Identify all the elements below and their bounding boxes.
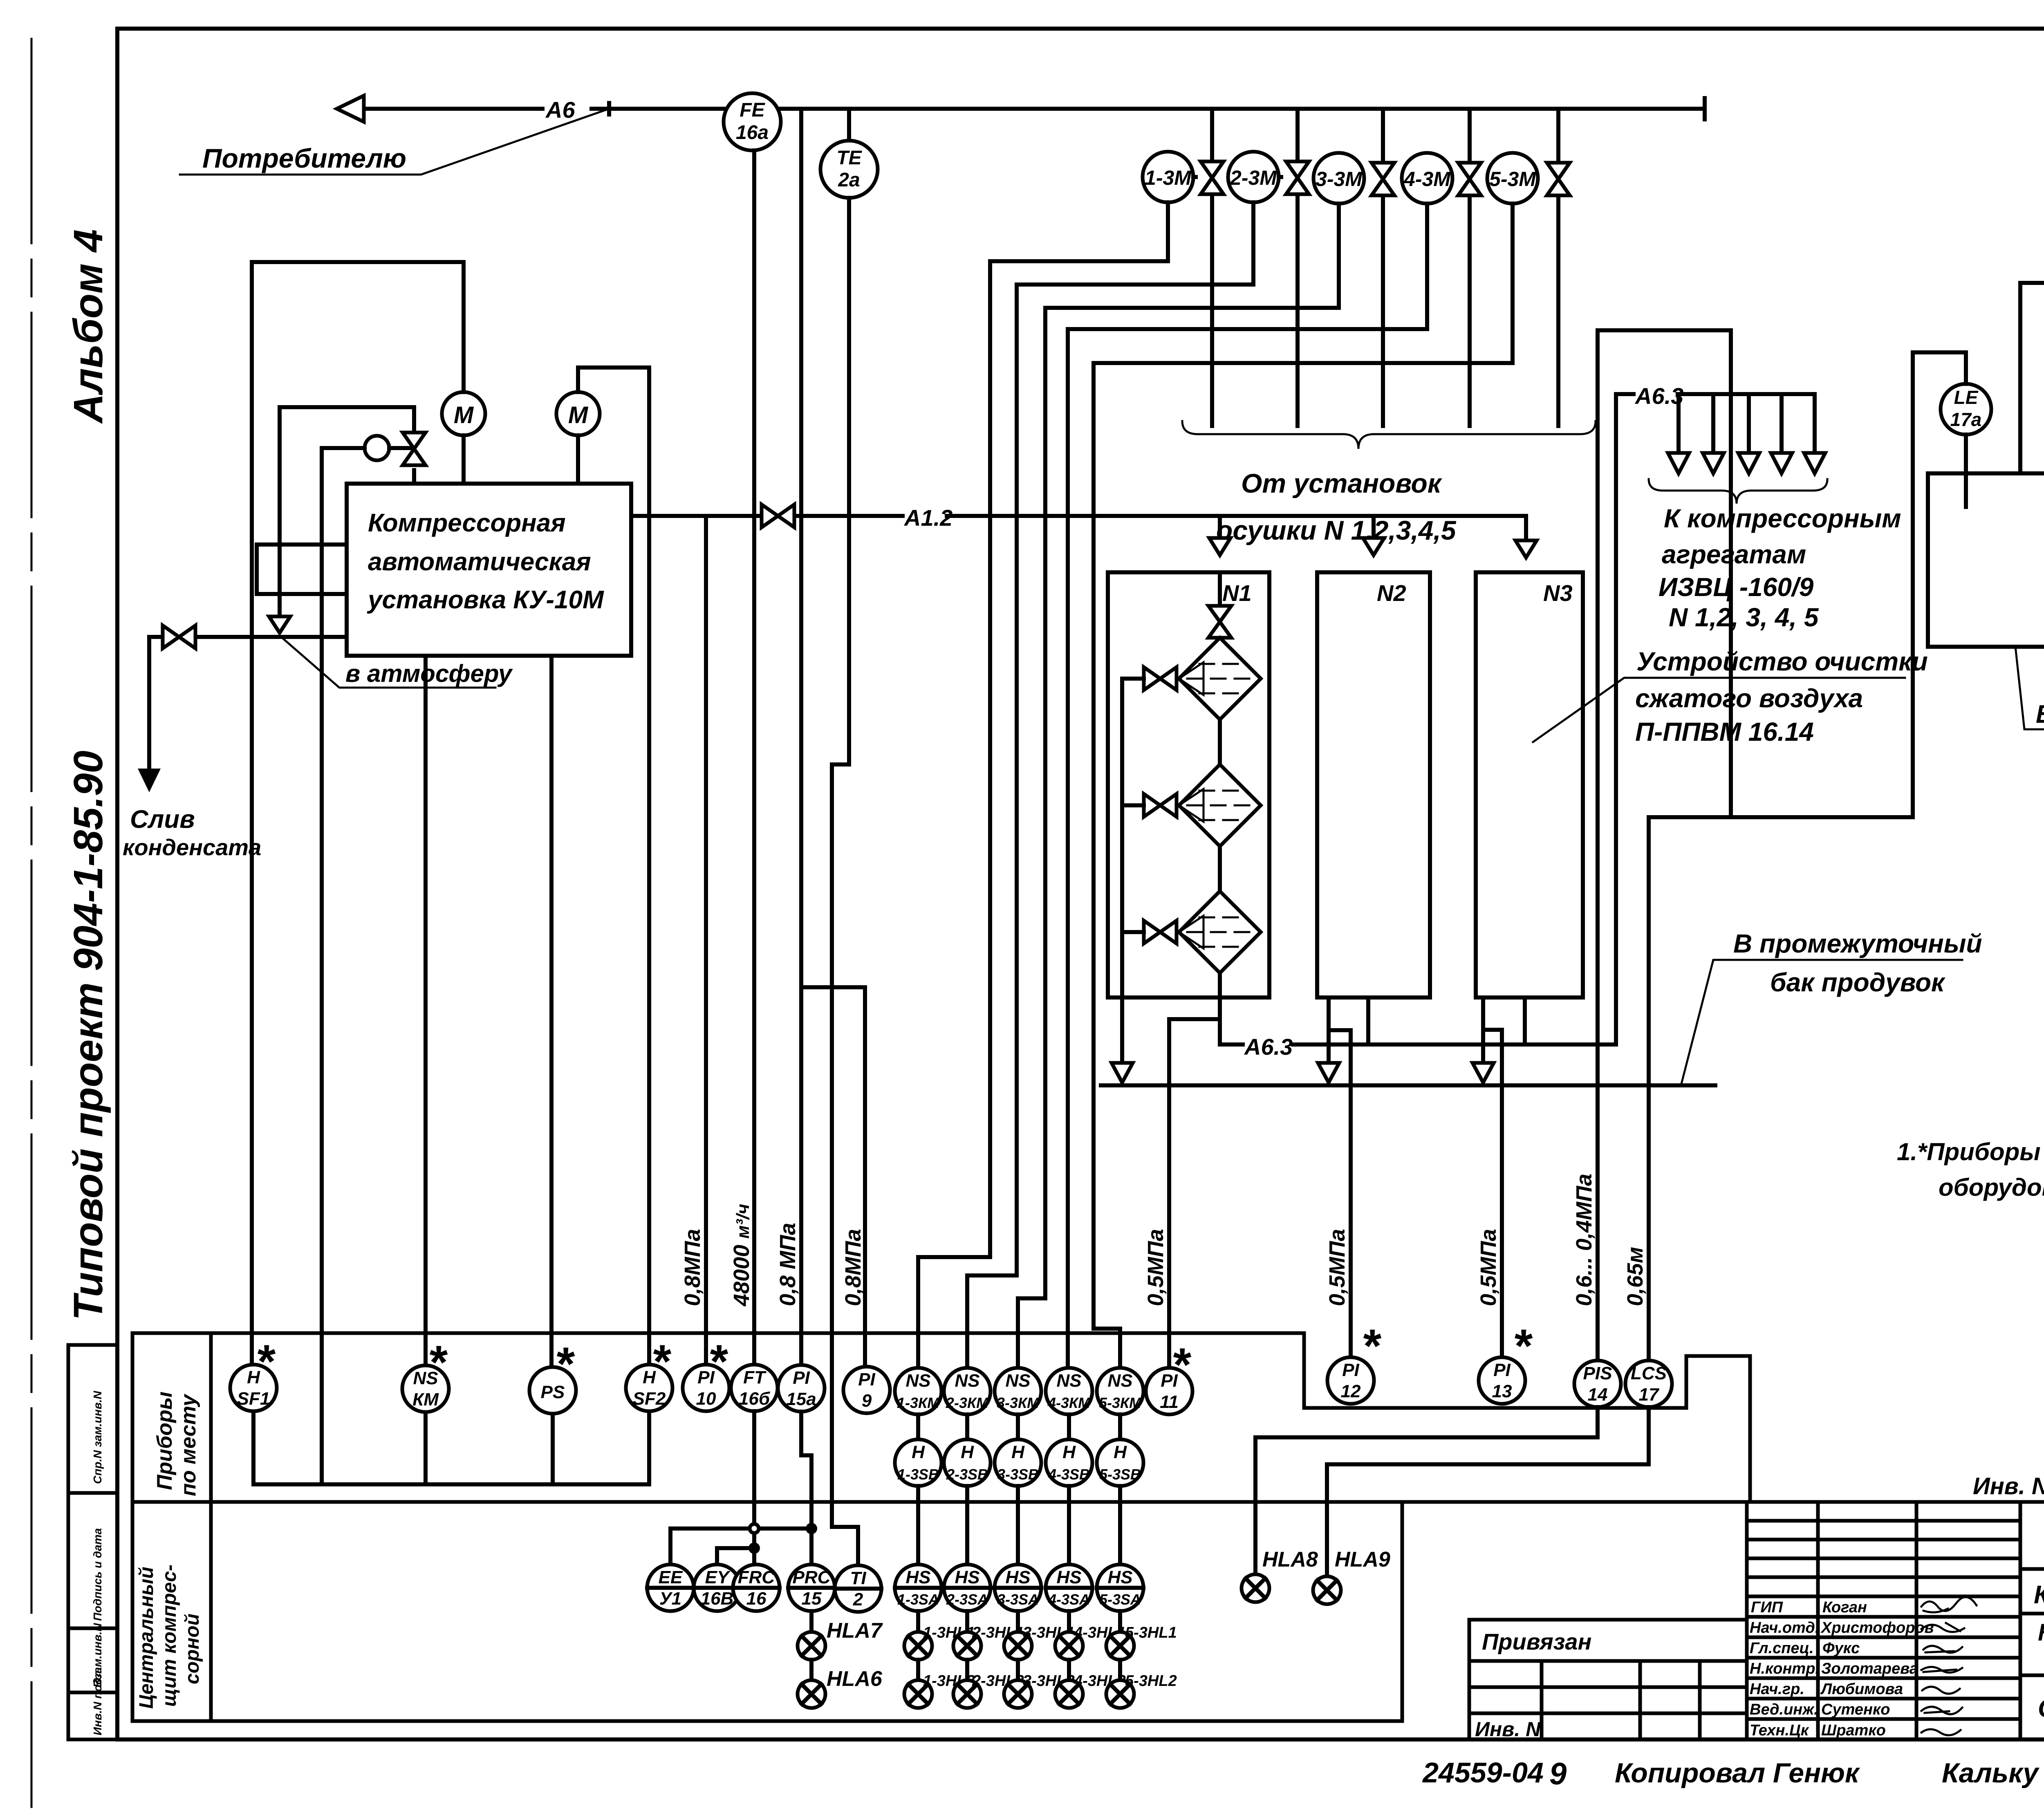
atmosphere arrow (open)	[269, 616, 290, 633]
wire lamp to lamp 2-3HL2	[965, 1660, 969, 1680]
svg-text:А1.2: А1.2	[903, 505, 953, 531]
instrument EY 16v	[694, 1564, 740, 1611]
instrument HS 3-3SA	[995, 1564, 1041, 1611]
svg-text:*: *	[1171, 1339, 1192, 1391]
svg-text:осушки N 1,2,3,4,5: осушки N 1,2,3,4,5	[1216, 515, 1457, 545]
lamp 3-3HL1	[1004, 1624, 1075, 1660]
box KU-10M unit	[347, 484, 631, 656]
svg-text:0,8МПа: 0,8МПа	[680, 1229, 705, 1306]
svg-text:HS: HS	[1056, 1567, 1081, 1587]
svg-text:TI: TI	[850, 1568, 866, 1588]
svg-text:Н: Н	[912, 1442, 925, 1462]
svg-text:М: М	[568, 402, 589, 428]
svg-text:PI: PI	[793, 1368, 810, 1388]
wire RO corner into tank	[2018, 283, 2022, 473]
instrument TI 2	[835, 1565, 881, 1612]
wire N3 blowdown	[1481, 997, 1485, 1063]
svg-text:10: 10	[696, 1389, 716, 1409]
leader oil tank label	[2015, 647, 2044, 729]
svg-text:Типовой проект 904-1-85.90: Типовой проект 904-1-85.90	[65, 751, 111, 1320]
wire 2-3M drop to NS 2-3KM	[967, 202, 1253, 1365]
wire HLA7 to HLA6	[809, 1660, 814, 1680]
frame top	[117, 27, 2044, 31]
motor M2	[556, 392, 600, 435]
svg-text:*: *	[1513, 1320, 1533, 1372]
lamp HLA9	[1313, 1548, 1390, 1604]
instrument NS 5-3KM	[1097, 1368, 1143, 1414]
svg-text:3-3SB: 3-3SB	[997, 1466, 1039, 1483]
svg-text:LE: LE	[1954, 387, 1979, 408]
instrument HS 1-3SA	[895, 1564, 941, 1611]
svg-text:17: 17	[1639, 1385, 1660, 1405]
svg-text:5-3КМ: 5-3КМ	[1099, 1394, 1142, 1411]
wire KU drop to NS KM	[424, 656, 428, 1365]
wire LCS to HLA9	[1327, 1407, 1649, 1577]
svg-text:Шратко: Шратко	[1821, 1722, 1886, 1739]
wire NS to H 4-3SB	[1067, 1414, 1071, 1439]
svg-text:*: *	[651, 1336, 672, 1388]
wire EY branch	[717, 1548, 754, 1564]
instrument H 1-3SB	[895, 1439, 941, 1486]
arrow A6.3 drop3 (open)	[1738, 453, 1759, 473]
wire NS to H 1-3SB	[916, 1414, 920, 1439]
drain valve	[163, 625, 195, 648]
svg-text:Фукс: Фукс	[1822, 1640, 1860, 1657]
label Potrebitelyu leader	[180, 109, 609, 175]
instrument NS 2-3KM	[944, 1368, 991, 1414]
svg-text:17а: 17а	[1950, 409, 1982, 430]
svg-text:Приборы: Приборы	[153, 1392, 177, 1490]
valve 1-3M riser	[1210, 109, 1214, 426]
instrument H 4-3SB	[1046, 1439, 1092, 1486]
instrument LCS 17	[1625, 1360, 1672, 1407]
svg-text:16а: 16а	[736, 122, 769, 143]
wire A6 main bus	[362, 107, 1705, 111]
table row2 bottom	[132, 1502, 1402, 1721]
instrument HS 2-3SA	[944, 1564, 991, 1611]
privyazan box	[1469, 1620, 1747, 1739]
svg-text:по месту: по месту	[177, 1393, 200, 1496]
svg-text:HLA9: HLA9	[1335, 1548, 1390, 1571]
svg-text:HS: HS	[1005, 1567, 1030, 1587]
instrument PRC 15	[788, 1564, 835, 1611]
svg-text:16: 16	[746, 1589, 766, 1609]
svg-text:FRC: FRC	[738, 1567, 775, 1587]
instrument PI 12	[1327, 1320, 1382, 1404]
svg-text:автоматическая: автоматическая	[368, 548, 591, 576]
leader ustroistvo ochistki	[1533, 678, 1905, 742]
svg-text:Альбом 4: Альбом 4	[65, 229, 111, 424]
svg-text:16б: 16б	[739, 1389, 771, 1409]
svg-text:PIS: PIS	[1583, 1363, 1612, 1383]
label pribory po mestu	[153, 1392, 200, 1496]
brace to compressor units	[1649, 479, 1827, 504]
wire gauge line	[322, 446, 414, 450]
valve 3-3M riser	[1381, 109, 1385, 426]
instrument H 5-3SB	[1097, 1439, 1143, 1486]
lamp HLA6	[798, 1667, 883, 1708]
wire 4-3M drop to NS 4-3KM	[1068, 204, 1427, 1365]
svg-text:КМ: КМ	[412, 1390, 439, 1410]
svg-text:Устройство очистки: Устройство очистки	[1636, 647, 1928, 676]
svg-text:N1: N1	[1222, 580, 1252, 606]
leader to intermediate tank	[1681, 960, 1962, 1085]
wire HS to lamp 2-3HL1	[965, 1611, 969, 1632]
svg-text:Н: Н	[1011, 1442, 1025, 1462]
svg-text:*: *	[428, 1336, 448, 1389]
wire PIS to HLA8	[1255, 1407, 1598, 1575]
titleblock row line 2	[2020, 1612, 2044, 1616]
svg-text:3-3М: 3-3М	[1316, 168, 1363, 191]
wire TE2a stub	[847, 109, 851, 141]
svg-text:9: 9	[862, 1391, 872, 1411]
svg-text:PI: PI	[858, 1369, 875, 1390]
valve 1-3M	[1201, 161, 1224, 194]
valve 4-3M riser	[1468, 109, 1472, 426]
instrument FRC 16	[733, 1564, 780, 1611]
valve 2-3M	[1286, 161, 1309, 194]
instrument H 3-3SB	[995, 1439, 1041, 1486]
svg-text:15а: 15а	[786, 1389, 816, 1409]
instrument HS 4-3SA	[1046, 1564, 1092, 1611]
wire lamp to lamp 3-3HL2	[1016, 1660, 1020, 1680]
lamp HLA8	[1242, 1548, 1318, 1602]
filter diamond 1	[1179, 638, 1261, 719]
wire PI9 branch from PI15a line	[801, 987, 865, 1367]
svg-text:5-3HL2: 5-3HL2	[1125, 1672, 1177, 1690]
svg-text:У1: У1	[659, 1589, 681, 1609]
instrument PI 11	[1146, 1339, 1192, 1414]
arrow to consumer (open, left)	[337, 96, 364, 122]
svg-text:EE: EE	[659, 1567, 683, 1587]
svg-text:2а: 2а	[838, 169, 860, 191]
svg-text:4-3КМ: 4-3КМ	[1047, 1394, 1091, 1411]
svg-text:PI: PI	[1493, 1360, 1511, 1380]
filter diamond 2	[1179, 764, 1261, 846]
svg-text:5-3SB: 5-3SB	[1099, 1466, 1141, 1483]
svg-text:Гл.спец.: Гл.спец.	[1750, 1640, 1814, 1657]
wire filters left header	[1122, 679, 1144, 932]
brace from dryer units	[1182, 421, 1596, 449]
instrument HS 5-3SA	[1097, 1564, 1143, 1611]
arrow A6.3 drop2 (open)	[1703, 453, 1724, 473]
pipe to drain valve	[149, 637, 347, 769]
instrument 2-3M	[1228, 152, 1281, 202]
svg-text:NS: NS	[1056, 1371, 1081, 1391]
svg-text:конденсата: конденсата	[123, 834, 261, 860]
instrument FT 16b	[731, 1365, 778, 1411]
wire A6.3 top bus	[1618, 392, 1815, 396]
arrow into N3 (open)	[1515, 540, 1537, 558]
wire M1 to box	[462, 435, 466, 484]
wire HS to lamp 1-3HL1	[916, 1611, 920, 1632]
svg-text:*: *	[1361, 1320, 1382, 1372]
wire LE to LCS route	[1649, 352, 1966, 1360]
svg-text:HS: HS	[1107, 1567, 1132, 1587]
valve in N1 inlet	[1218, 572, 1222, 639]
svg-text:ИЗВЦ -160/9: ИЗВЦ -160/9	[1659, 572, 1814, 602]
table left edges	[132, 1333, 211, 1721]
wire LE into tank	[1964, 435, 1968, 507]
svg-text:Инв.N подл.: Инв.N подл.	[91, 1668, 104, 1735]
svg-text:Н: Н	[961, 1442, 974, 1462]
local panel bus	[253, 1411, 649, 1484]
svg-text:агрегатам: агрегатам	[1662, 540, 1806, 569]
svg-text:NS: NS	[905, 1371, 930, 1391]
svg-text:HLA7: HLA7	[827, 1619, 883, 1643]
instrument PS	[529, 1338, 576, 1414]
titleblock row line 1	[2020, 1567, 2044, 1571]
valve 5-3M riser	[1556, 109, 1560, 426]
svg-text:9: 9	[1549, 1757, 1567, 1791]
svg-text:Спр.N зам.инв.N: Спр.N зам.инв.N	[91, 1391, 104, 1484]
A6 bus junction tick	[607, 103, 611, 114]
wire FT16b to FRC16	[752, 1411, 756, 1564]
svg-text:0,65м: 0,65м	[1623, 1247, 1647, 1306]
wire NS to H 3-3SB	[1016, 1414, 1020, 1439]
wire A6.3 arrow drop 2	[1711, 394, 1715, 453]
svg-text:Н.контр.: Н.контр.	[1750, 1660, 1820, 1677]
instrument NS 4-3KM	[1046, 1368, 1092, 1414]
svg-text:Центральный: Центральный	[136, 1567, 157, 1709]
svg-text:Инв. N: Инв. N	[1973, 1473, 2044, 1499]
svg-text:Копировал Генюк: Копировал Генюк	[1615, 1757, 1860, 1789]
instrument 4-3M	[1402, 153, 1452, 204]
svg-text:2-3М: 2-3М	[1230, 166, 1277, 189]
titleblock outline left part	[1747, 1502, 2020, 1739]
lamp 5-3HL2	[1106, 1672, 1177, 1708]
svg-text:PRC: PRC	[793, 1567, 831, 1587]
instrument PI 15a	[778, 1365, 825, 1412]
svg-text:Потребителю: Потребителю	[202, 143, 406, 173]
arrow into N1 (open)	[1218, 516, 1222, 538]
svg-text:Техн.Цк: Техн.Цк	[1750, 1722, 1809, 1739]
svg-text:SF2: SF2	[633, 1389, 666, 1409]
svg-text:3-3КМ: 3-3КМ	[997, 1394, 1040, 1411]
svg-text:сорной: сорной	[182, 1614, 203, 1684]
svg-text:5-3HL1: 5-3HL1	[1125, 1624, 1177, 1641]
svg-text:Компрессорная: Компрессорная	[368, 509, 566, 537]
svg-text:14: 14	[1588, 1385, 1608, 1405]
label v atmosferu leader	[282, 638, 495, 688]
svg-text:Любимова: Любимова	[1820, 1681, 1903, 1698]
svg-text:Н: Н	[1114, 1442, 1127, 1462]
wire KU drop to PS	[549, 656, 554, 1367]
instrument 1-3M	[1143, 152, 1196, 202]
junction dot FRC line	[749, 1542, 760, 1554]
svg-text:К компрессорным: К компрессорным	[1664, 504, 1901, 533]
svg-text:бак продувок: бак продувок	[1770, 968, 1946, 997]
arrow N3 blowdown (open)	[1472, 1063, 1494, 1083]
binding edge thin line	[31, 39, 33, 1807]
wire A6.3 arrow drop 1	[1676, 394, 1681, 453]
wire HS to lamp 5-3HL1	[1118, 1611, 1122, 1632]
table top boundary	[132, 1333, 1750, 1502]
valve 2-3M riser	[1295, 109, 1300, 426]
instrument PI 9	[843, 1367, 890, 1413]
label tsentralnyi schit	[136, 1564, 203, 1709]
svg-text:PI: PI	[1342, 1360, 1359, 1380]
instrument 5-3M	[1487, 153, 1538, 204]
wire bus down to PI15a	[799, 109, 803, 1365]
svg-text:1-3SB: 1-3SB	[897, 1466, 939, 1483]
wire N3 outlet to A6.3	[1523, 997, 1527, 1044]
wire gauge drop to panel bus	[320, 448, 324, 1484]
svg-text:0,8МПа: 0,8МПа	[841, 1229, 865, 1306]
svg-text:2: 2	[853, 1589, 863, 1609]
svg-text:щит компрес-: щит компрес-	[159, 1564, 180, 1707]
svg-text:Привязан: Привязан	[1482, 1629, 1591, 1654]
lamp 1-3HL2	[904, 1672, 975, 1708]
wire NS to H 5-3SB	[1118, 1414, 1122, 1439]
valve filter2	[1144, 794, 1177, 817]
svg-text:1-3М: 1-3М	[1145, 166, 1192, 189]
svg-text:П-ППВМ 16.14: П-ППВМ 16.14	[1635, 717, 1814, 746]
wire FE16a down to FT16b	[752, 150, 756, 1365]
arrow into N2 (open)	[1372, 516, 1376, 538]
svg-text:HS: HS	[955, 1567, 979, 1587]
svg-text:*: *	[708, 1336, 728, 1388]
svg-text:FT: FT	[743, 1367, 766, 1387]
svg-text:NS: NS	[955, 1371, 979, 1391]
svg-text:3-3SA: 3-3SA	[997, 1591, 1039, 1608]
wire H to HS 1-3SA	[916, 1486, 920, 1564]
instrument H SF2	[626, 1336, 672, 1411]
wire filters chain	[1218, 719, 1222, 891]
svg-text:4-3М: 4-3М	[1403, 168, 1451, 191]
wire PIS14 loop	[1598, 330, 1731, 1360]
instrument PIS 14	[1574, 1360, 1621, 1407]
lamp 3-3HL2	[1004, 1672, 1075, 1708]
sidebar small boxes column	[68, 1345, 117, 1739]
valve 3-3M	[1372, 163, 1394, 195]
bracket on box left	[257, 545, 347, 594]
svg-text:N2: N2	[1377, 580, 1406, 606]
wire 3-3M drop to NS 3-3KM	[1018, 204, 1339, 1365]
svg-text:0,5МПа: 0,5МПа	[1325, 1229, 1349, 1306]
titleblock stacked rows	[1747, 1521, 2020, 1719]
svg-text:12: 12	[1341, 1381, 1361, 1401]
lamp 4-3HL1	[1055, 1624, 1126, 1660]
svg-text:4-3SA: 4-3SA	[1048, 1591, 1090, 1608]
svg-text:2-3КМ: 2-3КМ	[946, 1394, 989, 1411]
wire 1-3M drop to NS 1-3KM	[918, 202, 1168, 1365]
svg-text:LCS: LCS	[1631, 1363, 1667, 1383]
svg-text:Христофоров: Христофоров	[1820, 1619, 1934, 1636]
arrow N2 blowdown (open)	[1318, 1063, 1339, 1083]
svg-text:Сутенко: Сутенко	[1821, 1701, 1890, 1718]
svg-text:Компрессорная стан-: Компрессорная стан-	[2038, 1619, 2044, 1646]
valve filter1	[1144, 667, 1177, 690]
svg-text:Инв. N: Инв. N	[1475, 1718, 1541, 1741]
instrument TE 2a	[820, 141, 878, 198]
wire H to HS 2-3SA	[965, 1486, 969, 1564]
wire H to HS 3-3SA	[1016, 1486, 1020, 1564]
wire PI11 tap	[1169, 1019, 1220, 1368]
arrow A6.3 drop4 (open)	[1771, 453, 1792, 473]
svg-text:*: *	[555, 1338, 575, 1390]
svg-text:1-3SA: 1-3SA	[897, 1591, 939, 1608]
wire A6.3 arrow drop 4	[1780, 394, 1784, 453]
wire vent loop with valve	[280, 407, 414, 621]
lamp 2-3HL2	[953, 1672, 1024, 1708]
svg-text:SF1: SF1	[237, 1389, 270, 1409]
instrument PI 13	[1479, 1320, 1533, 1404]
instrument FE 16a on bus	[724, 93, 781, 150]
wire EE branch	[670, 1529, 811, 1564]
svg-text:0,5МПа: 0,5МПа	[1143, 1229, 1168, 1306]
svg-text:Золотарева: Золотарева	[1821, 1660, 1918, 1677]
svg-text:2-3SB: 2-3SB	[946, 1466, 988, 1483]
valve filter3	[1144, 921, 1177, 944]
svg-text:От установок: От установок	[1241, 468, 1443, 498]
table row divider / title top	[132, 1500, 2044, 1504]
instrument NS 3-3KM	[995, 1368, 1041, 1414]
signature scribbles	[1921, 1597, 1977, 1735]
valve on A1.2	[762, 504, 794, 527]
svg-text:А6: А6	[545, 97, 575, 123]
arrow A6.3 drop1 (open)	[1668, 453, 1689, 473]
svg-text:15: 15	[802, 1589, 822, 1609]
instrument H SF1	[230, 1336, 277, 1411]
svg-text:1-3КМ: 1-3КМ	[897, 1394, 940, 1411]
junction open FRC cross	[750, 1524, 759, 1533]
wire PI13 tap	[1483, 1030, 1502, 1357]
drain arrow (solid)	[138, 769, 161, 792]
svg-text:В промежуточный: В промежуточный	[1733, 929, 1982, 958]
gauge circle	[365, 436, 389, 460]
wire N1 blowdown to collector	[1120, 932, 1124, 1063]
svg-text:Кальку сверил Шратко: Кальку сверил Шратко	[1942, 1757, 2044, 1789]
svg-text:24559-04: 24559-04	[1422, 1757, 1544, 1789]
svg-text:1.*Приборы поставляются комп: 1.*Приборы поставляются комплектно с	[1897, 1138, 2044, 1165]
instrument EE U1	[647, 1564, 694, 1611]
svg-text:5-3М: 5-3М	[1489, 168, 1536, 191]
valve 5-3M	[1547, 163, 1570, 195]
lamp 2-3HL1	[953, 1624, 1024, 1660]
svg-text:М: М	[454, 402, 474, 428]
svg-text:0,8 МПа: 0,8 МПа	[775, 1223, 800, 1306]
wire N1 outlet down	[1218, 973, 1222, 1044]
valve on vent loop	[403, 433, 426, 465]
svg-text:А6.3: А6.3	[1244, 1034, 1293, 1060]
lamp 4-3HL2	[1055, 1672, 1126, 1708]
svg-text:HLA8: HLA8	[1262, 1548, 1318, 1571]
svg-text:Компрессорная станция 5КЦ-16: Компрессорная станция 5КЦ-160АО	[2034, 1581, 2044, 1609]
wire lamp to lamp 4-3HL2	[1067, 1660, 1071, 1680]
lamp 5-3HL1	[1106, 1624, 1177, 1660]
svg-text:5-3SA: 5-3SA	[1099, 1591, 1141, 1608]
svg-text:*: *	[255, 1336, 276, 1388]
instrument LE 17a	[1941, 384, 1991, 435]
wire N2 outlet to A6.3	[1366, 997, 1370, 1044]
arrow N1 blowdown (open)	[1112, 1063, 1133, 1083]
svg-text:EY: EY	[705, 1567, 731, 1587]
svg-text:сжатого воздуха: сжатого воздуха	[1635, 684, 1863, 713]
svg-text:Слив: Слив	[130, 805, 195, 834]
svg-text:4-3SB: 4-3SB	[1048, 1466, 1090, 1483]
svg-text:Подпись и дата: Подпись и дата	[91, 1528, 104, 1621]
wire PRC to HLA7	[809, 1611, 814, 1632]
svg-text:ГИП: ГИП	[1751, 1599, 1783, 1616]
instrument PI 10	[683, 1336, 729, 1411]
wire M2 loop to H SF2	[578, 368, 649, 1365]
svg-text:48000 м³/ч: 48000 м³/ч	[729, 1204, 754, 1307]
wire blowdown collector line	[1101, 1083, 1715, 1087]
svg-text:установка КУ-10М: установка КУ-10М	[367, 586, 604, 614]
titleblock row line 3	[2020, 1674, 2044, 1677]
svg-text:N 1,2, 3, 4, 5: N 1,2, 3, 4, 5	[1669, 603, 1819, 632]
